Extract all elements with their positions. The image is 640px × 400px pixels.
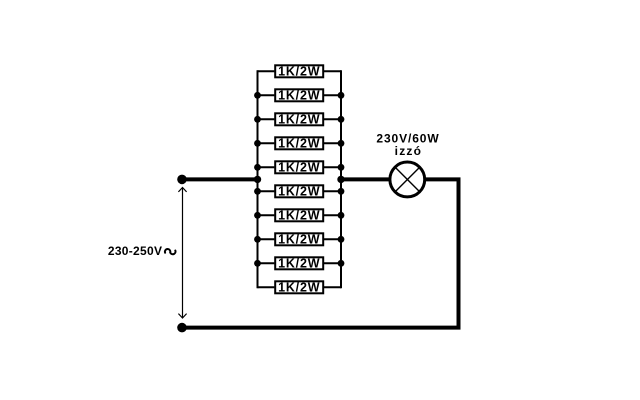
resistor R8 1K/2W [258,233,342,247]
resistor R2 1K/2W [258,89,342,103]
node junction right bus row 2 [338,92,345,99]
resistor R1 1K/2W [258,65,342,79]
node junction right bus row 5 [338,164,345,171]
node junction left bus row 4 [254,140,261,147]
svg-text:1K/2W: 1K/2W [278,89,320,103]
wire right bus [340,70,342,288]
resistor R4 1K/2W [258,137,342,151]
node junction right bus row 7 [338,212,345,219]
svg-text:izzó: izzó [395,144,422,158]
svg-text:1K/2W: 1K/2W [278,233,320,247]
svg-text:1K/2W: 1K/2W [278,65,320,79]
node junction left bus row 5 [254,164,261,171]
node junction right bus row 6 [338,188,345,195]
svg-text:1K/2W: 1K/2W [278,257,320,271]
svg-text:1K/2W: 1K/2W [278,185,320,199]
resistor R3 1K/2W [258,113,342,127]
svg-text:1K/2W: 1K/2W [278,281,320,295]
svg-text:1K/2W: 1K/2W [278,113,320,127]
wire resistor bank to lamp [341,177,390,181]
node junction left bus row 3 [254,116,261,123]
node junction left bus row 7 [254,212,261,219]
lamp 230V/60W izzo [390,162,425,197]
node junction right bus row 8 [338,236,345,243]
node junction left bus row 9 [254,260,261,267]
svg-text:1K/2W: 1K/2W [278,137,320,151]
node junction left bus row 6 [254,188,261,195]
node junction right bus row 4 [338,140,345,147]
node terminal top [177,175,187,185]
node junction right bus row 9 [338,260,345,267]
svg-text:1K/2W: 1K/2W [278,209,320,223]
node junction right bus row 3 [338,116,345,123]
node junction left bus row 2 [254,92,261,99]
measurement arrow between terminals [178,188,186,319]
svg-text:1K/2W: 1K/2W [278,161,320,175]
node junction right bus feed [337,176,344,183]
node terminal bottom [177,323,187,333]
wire left terminal to resistor bank [182,177,258,181]
node junction left bus row 8 [254,236,261,243]
wire left bus [257,70,259,288]
node junction left bus feed [254,176,261,183]
resistor R7 1K/2W [258,209,342,223]
resistor R10 1K/2W [258,281,342,295]
wire lamp to bottom terminal [182,179,459,327]
resistor R5 1K/2W [258,161,342,175]
svg-text:230-250V: 230-250V [108,244,162,258]
resistor R6 1K/2W [258,185,342,199]
ac sine symbol [165,249,176,254]
resistor R9 1K/2W [258,257,342,271]
